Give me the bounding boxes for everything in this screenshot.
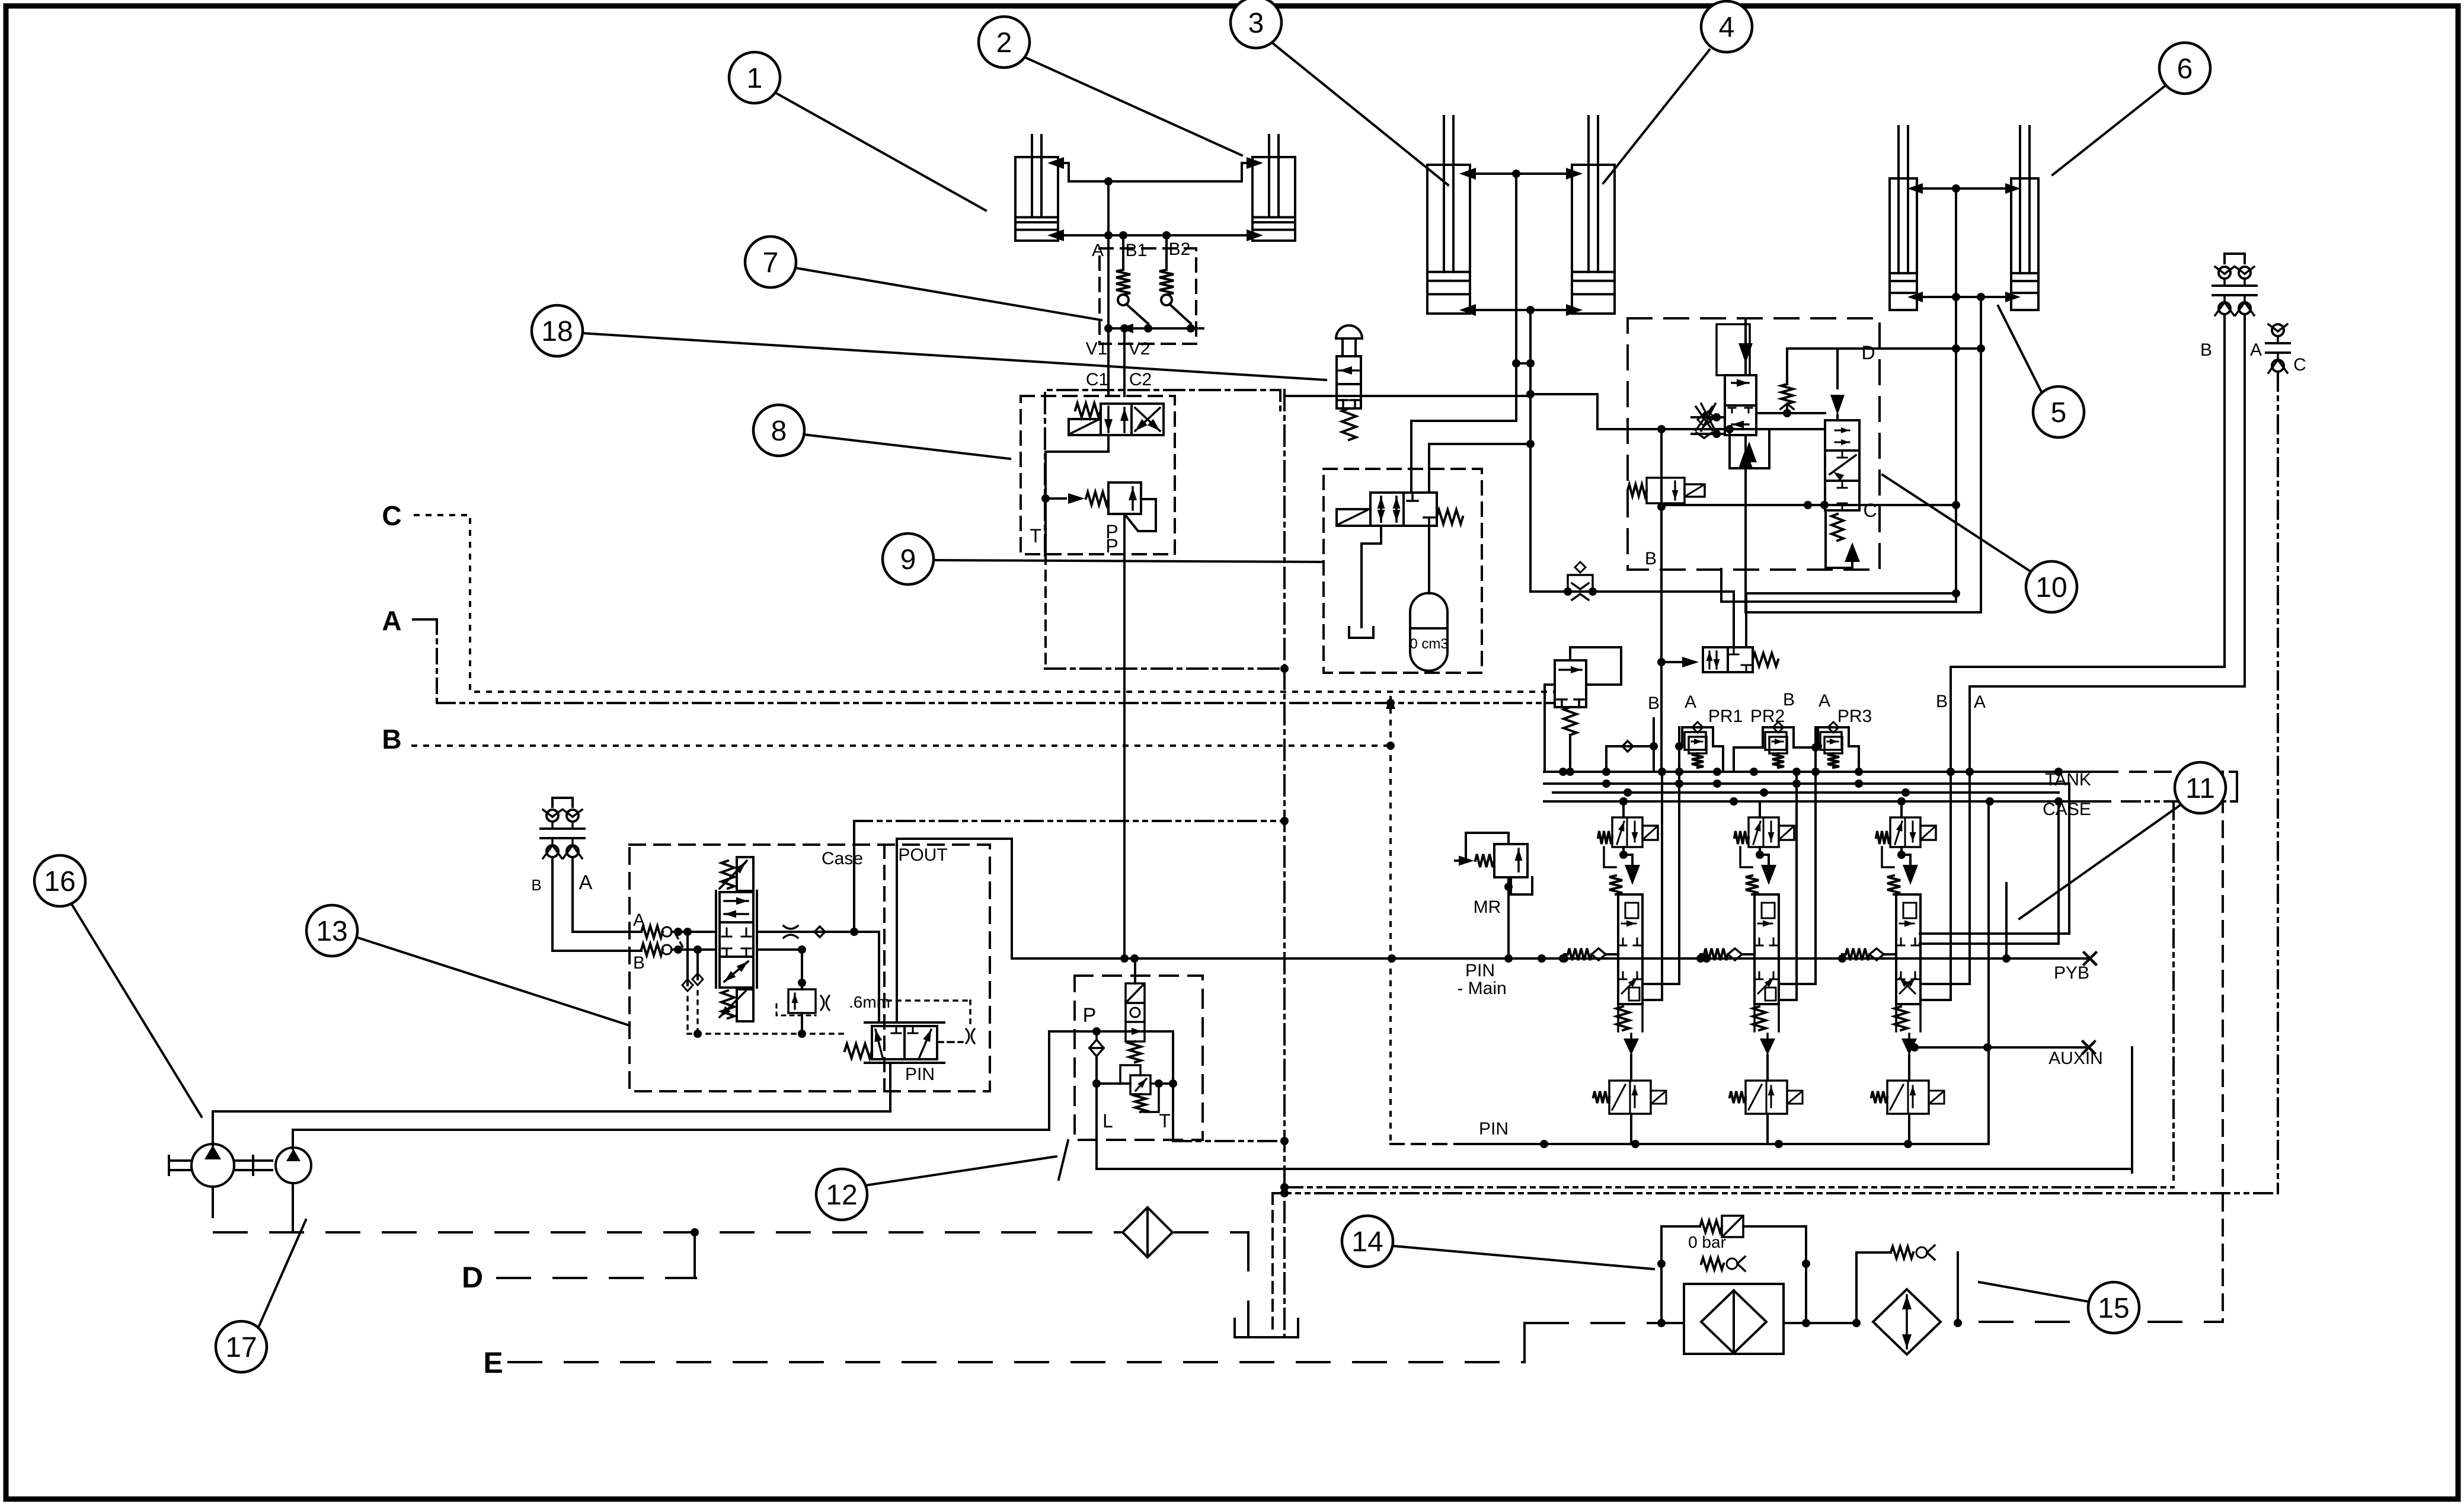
svg-text:C2: C2 <box>1129 370 1152 389</box>
node L label <box>1102 1110 1113 1132</box>
valve13 center cell ticks <box>722 928 751 957</box>
case net dashdotdot <box>854 817 1289 825</box>
svg-text:10: 10 <box>2035 572 2067 603</box>
callout circle 11 <box>2175 762 2226 813</box>
leader line 3 <box>1272 43 1448 185</box>
callout circle 7 <box>745 237 796 287</box>
svg-text:E: E <box>483 1346 503 1379</box>
check valve A-net <box>1730 429 1769 468</box>
svg-text:C: C <box>1863 500 1877 521</box>
svg-text:B: B <box>1783 690 1795 710</box>
svg-text:B: B <box>531 876 541 894</box>
manual valve arrow <box>1339 366 1359 375</box>
bank section 3 pilot+spool <box>1838 793 1944 1144</box>
pump shaft <box>169 1156 272 1175</box>
compensator spring-check <box>1041 492 1108 505</box>
valve13 bottom cap <box>720 989 753 1021</box>
node B label subassembly <box>1645 549 1657 568</box>
net E label <box>483 1346 503 1379</box>
solenoid 3-2 subassembly <box>1628 478 1705 503</box>
wire PIN line <box>1391 1140 1987 1148</box>
coupler bracket right <box>2225 254 2245 263</box>
node T <box>1030 499 1046 554</box>
wire pair1 bottom port <box>1047 229 1263 241</box>
manual valve knob <box>1336 325 1362 356</box>
svg-text:A: A <box>1819 691 1830 711</box>
wire pump1 outlet <box>213 1111 890 1145</box>
cylinder 1 (left of pair 1) <box>1015 135 1058 241</box>
T drain dashes <box>1044 554 1047 669</box>
check valve block 7 enclosure <box>1100 248 1196 344</box>
filter 14 right riser <box>1802 1226 1810 1327</box>
svg-text:C1: C1 <box>1086 370 1108 389</box>
wire shutoff entry <box>1661 657 1699 667</box>
node PIN label 13 <box>905 1065 935 1084</box>
net D dashed <box>497 1232 696 1278</box>
svg-text:PR3: PR3 <box>1837 707 1872 726</box>
valve block 8 enclosure <box>1021 396 1175 554</box>
net C label <box>382 500 401 531</box>
cylinder 4 (right of pair 2) <box>1572 116 1615 314</box>
quick coupler B left <box>541 810 564 858</box>
wire case dashdotdot right <box>2172 801 2175 1184</box>
filter 14 box <box>1684 1284 1784 1354</box>
bank section 1 pilot+spool <box>1560 797 1666 1144</box>
wire A3 drop <box>1920 772 1970 984</box>
dashdotdot drain line 2 <box>1273 1192 2278 1194</box>
wire A2 drop <box>1779 784 1816 984</box>
pressure reducer PR2 <box>1734 707 1820 784</box>
leader line 18 <box>582 333 1326 380</box>
wire accu feed 2 <box>1429 444 1530 493</box>
assembly10 right valve bottom <box>1826 510 1860 568</box>
svg-text:17: 17 <box>225 1332 257 1363</box>
node C label <box>1863 500 1877 521</box>
leader line 7 <box>795 268 1101 320</box>
valve13 top cap arrow <box>720 862 746 889</box>
assembly10 top poppet <box>1717 318 1753 375</box>
wire pair3 top port <box>1907 183 2021 194</box>
quick coupler A right <box>2233 267 2257 315</box>
callout circle 3 <box>1231 0 1281 48</box>
accu valve arrows <box>1378 497 1401 522</box>
dashdotdot drain line 1 <box>1280 1187 2174 1197</box>
node A pair1 <box>1092 181 1108 260</box>
svg-text:V2: V2 <box>1129 339 1150 359</box>
node B1 <box>1123 235 1147 270</box>
port spring B13 <box>641 944 672 956</box>
quick coupler C right <box>2266 324 2290 373</box>
wire pump suctions <box>213 1183 293 1232</box>
svg-text:5: 5 <box>2051 397 2067 429</box>
valve13 arrows bottom cell <box>724 961 748 982</box>
quick coupler B right <box>2213 267 2236 315</box>
check valve CV2 <box>1159 270 1191 324</box>
wire valve13 pilot left A <box>682 932 693 1034</box>
quick coupler A left <box>561 810 584 858</box>
filter bypass check <box>1661 1257 1806 1271</box>
filter 14 diamond <box>1701 1290 1766 1353</box>
callout circle 16 <box>34 855 85 906</box>
svg-text:18: 18 <box>541 316 573 347</box>
cooler 15 left riser <box>1852 1252 1861 1327</box>
leader line 6 <box>2053 85 2166 175</box>
accu valve T-cell <box>1407 493 1434 526</box>
wire B1 bank vertical <box>1657 429 1666 772</box>
node A label right <box>2250 340 2262 360</box>
callout circle 15 <box>2088 1282 2139 1333</box>
node A label bank3 <box>1974 692 1986 712</box>
node D line <box>1787 342 1981 384</box>
wire A1 drop <box>1642 772 1679 984</box>
svg-text:3: 3 <box>1248 8 1264 39</box>
throttle symbol A out <box>784 926 798 938</box>
svg-text:7: 7 <box>763 247 779 279</box>
wire A1 bank vertical <box>1679 708 1680 727</box>
valve8 spring <box>1075 403 1101 417</box>
wire C1 to compensator <box>1046 435 1108 499</box>
cylinder 2 (right of pair 1) <box>1252 135 1295 241</box>
valve13 arrows top cell <box>724 897 748 918</box>
wire AUX riser <box>1989 806 2006 1144</box>
node MR label <box>1474 897 1501 917</box>
svg-text:A: A <box>1685 692 1696 712</box>
wire pair2 top port <box>1459 168 1583 180</box>
node C label right <box>2293 355 2306 375</box>
pilot dotted bus 13 <box>688 1030 848 1038</box>
valve8 solenoid <box>1069 419 1101 435</box>
svg-text:V1: V1 <box>1086 339 1108 359</box>
assembly10 throttle X <box>1701 404 1715 431</box>
wire bypass to shutoff <box>1530 592 1734 647</box>
port spring A13 <box>641 926 672 938</box>
cylinder 3 (left of pair 2) <box>1427 116 1470 314</box>
wire A-net upper <box>1516 359 1825 433</box>
svg-text:6: 6 <box>2177 53 2193 85</box>
node CASE label <box>2043 800 2091 819</box>
node AUXIN label <box>2048 1049 2103 1068</box>
net C dotted <box>415 515 1555 692</box>
node PYB label <box>2054 963 2089 983</box>
wire accu tank branch <box>1362 526 1381 627</box>
wire C-net subassembly <box>1661 501 1956 509</box>
callout circle 14 <box>1342 1216 1393 1267</box>
PIN pilot throttle <box>887 1001 974 1043</box>
tank symbol item9 <box>1349 627 1373 638</box>
pilot supply 12 enclosure <box>1075 976 1203 1140</box>
leader line 4 <box>1603 50 1709 183</box>
tank symbol bottom <box>1235 1319 1298 1337</box>
node B label sec2 <box>1783 690 1795 710</box>
wire manual valve line <box>1286 395 1530 397</box>
manual valve T-cell <box>1338 400 1360 408</box>
coupler bracket left <box>552 798 573 807</box>
wire valve13 A out <box>757 928 879 1022</box>
filter diamond on suction <box>1123 1207 1172 1257</box>
svg-text:A: A <box>1974 692 1986 712</box>
node B label bank3 <box>1936 692 1948 711</box>
leader line 5 <box>1998 306 2043 394</box>
svg-text:T: T <box>1030 525 1041 547</box>
node A label 13 <box>633 910 645 930</box>
svg-text:8: 8 <box>771 416 787 447</box>
node Case label <box>822 849 863 868</box>
leader line 8 <box>804 434 1010 459</box>
pump 16 circle <box>191 1144 234 1187</box>
wire D hook <box>1239 1232 1248 1270</box>
net B label <box>382 724 401 755</box>
wire filter main line <box>1600 1322 1856 1324</box>
wire bank B3 vertical <box>1950 667 1952 772</box>
wire left feeds bank <box>1562 772 1564 954</box>
wire bus2 drop <box>1545 685 2069 934</box>
callout circle 8 <box>753 405 804 456</box>
manual valve 18 body <box>1337 356 1361 408</box>
svg-text:C: C <box>382 500 401 531</box>
wire tank dashed right <box>2222 772 2224 1322</box>
wire B1 drop <box>1642 772 1662 1000</box>
wire pump2 to P <box>293 1027 1173 1149</box>
svg-text:2: 2 <box>996 27 1012 59</box>
svg-text:A: A <box>382 605 401 636</box>
leader line 11 <box>2019 804 2181 919</box>
bus TANK line <box>1544 768 2237 801</box>
wire C dashdotdot <box>2277 373 2279 1193</box>
wire pair1 top port <box>1047 157 1263 186</box>
bus line 3 <box>1553 788 2059 797</box>
wire B2 drop <box>1779 772 1797 1000</box>
wire cooler line <box>1856 1322 1958 1324</box>
throttle check bypass <box>1564 562 1597 600</box>
svg-text:13: 13 <box>316 916 347 947</box>
cylinder 6 (right of pair 3) <box>2011 126 2038 310</box>
wire L-T branch <box>1092 1056 1130 1169</box>
valve8 right-cell cross arrows <box>1135 408 1160 431</box>
wire sec1 left vertical <box>1606 746 1607 772</box>
svg-text:T: T <box>1159 1110 1171 1132</box>
wire valve13 pilot left B <box>692 950 703 1038</box>
wire pair3 left drop <box>1878 188 1960 602</box>
pilot valve PIN 13 <box>845 1022 944 1063</box>
cylinder 5 (left of pair 3) <box>1890 126 1917 310</box>
node T label 12 <box>1159 1110 1171 1132</box>
accumulator <box>1410 526 1448 671</box>
valve block 13 enclosure <box>629 845 990 1091</box>
accumulator solenoid valve body <box>1370 493 1437 526</box>
assembly10 port lines left <box>1692 413 1725 438</box>
node Case vertical <box>853 821 855 932</box>
callout circle 5 <box>2033 386 2084 437</box>
net E dashed 2 <box>1535 1322 1660 1324</box>
svg-text:12: 12 <box>826 1180 857 1211</box>
svg-text:A: A <box>1092 241 1104 260</box>
wire AUX rect <box>2089 1047 2132 1172</box>
compensator valve 8 body <box>1108 483 1141 514</box>
solenoid pilot valve 8 body <box>1101 404 1164 435</box>
bus line 2 <box>1544 779 2069 788</box>
callout circle 6 <box>2159 43 2210 94</box>
svg-text:PYB: PYB <box>2054 963 2089 983</box>
svg-text:B1: B1 <box>1126 241 1148 260</box>
wire pair2 right drop <box>1526 310 1535 592</box>
node A label left <box>579 871 593 894</box>
svg-text:B: B <box>382 724 401 755</box>
svg-text:14: 14 <box>1351 1226 1383 1258</box>
node V1 <box>1086 248 1108 396</box>
net D label <box>462 1261 483 1294</box>
svg-text:PIN: PIN <box>905 1065 935 1084</box>
svg-text:C: C <box>2293 355 2306 375</box>
valve8 left-cell arrows <box>1104 407 1129 432</box>
wire drain line long <box>1097 1168 2132 1170</box>
svg-text:1: 1 <box>747 63 763 94</box>
wire pair2 left drop <box>1512 174 1520 421</box>
node PIN Main label <box>1457 961 1506 998</box>
solenoid valve 2-2 top <box>1703 647 1778 672</box>
valve13 rails <box>716 891 757 988</box>
wire B3 drop <box>1920 772 1951 1000</box>
wire T out 12 <box>1173 1031 1289 1145</box>
node V2 <box>1124 328 1150 396</box>
pressure reducer PR3 <box>1814 707 1872 772</box>
wire PIN-Main line <box>1012 953 2096 964</box>
svg-text:P: P <box>1105 535 1118 557</box>
cooler bypass check <box>1856 1245 1958 1260</box>
svg-text:PR1: PR1 <box>1708 707 1743 726</box>
node TANK label <box>2045 770 2091 790</box>
svg-text:A: A <box>579 871 593 894</box>
callout circle 17 <box>216 1321 267 1372</box>
tank suction dashed line <box>214 1228 1239 1236</box>
assembly10 right valve arrows <box>1830 427 1856 510</box>
leader line 16 <box>71 903 202 1117</box>
svg-text:A: A <box>2250 340 2262 360</box>
leader line 13 <box>356 937 629 1025</box>
leader line 15 <box>1979 1282 2089 1302</box>
svg-text:PR2: PR2 <box>1750 707 1785 726</box>
callout circle 13 <box>306 905 357 956</box>
wire valve10 bottom stub2 <box>1721 569 1878 602</box>
node B label left <box>531 876 541 894</box>
svg-text:L: L <box>1102 1110 1113 1132</box>
assembly10 right valve body <box>1825 420 1859 510</box>
svg-text:4: 4 <box>1719 12 1735 43</box>
accu valve spring <box>1437 510 1463 524</box>
manifold enclosure dash-dot <box>1045 390 1284 669</box>
gauge 0 bar <box>1661 1216 1806 1251</box>
node POUT label <box>898 845 947 865</box>
wire pair3 right drop <box>1746 297 1985 612</box>
relief valve MR <box>1455 833 1532 958</box>
leader line 17 <box>259 1220 306 1326</box>
valve13 body <box>720 892 753 988</box>
node B2 <box>1167 235 1190 270</box>
wire pair3 bottom port <box>1907 292 2021 302</box>
callout circle 9 <box>883 533 934 584</box>
check diamond bank inlet <box>1606 718 1658 772</box>
pump 17 flow triangle <box>286 1149 301 1161</box>
wire coupler A route <box>1970 315 2245 686</box>
leader line 9 <box>934 560 1324 562</box>
svg-text:11: 11 <box>2185 773 2215 804</box>
wire shutoff out <box>1746 589 1960 647</box>
leader line 10 <box>1883 475 2030 571</box>
wire PIN down <box>889 1063 891 1111</box>
manual valve spring <box>1342 408 1356 440</box>
wire valve10 bottom stub <box>1744 569 1747 612</box>
wire bus4 drop <box>1920 801 2059 944</box>
valve13 top cap <box>720 857 753 891</box>
svg-text:0 bar: 0 bar <box>1688 1233 1726 1251</box>
leader line 12 <box>865 1156 1056 1186</box>
svg-text:B: B <box>1648 694 1660 713</box>
svg-text:B: B <box>1645 549 1657 568</box>
wire pair2 bottom port <box>1459 304 1583 316</box>
svg-text:D: D <box>1861 342 1875 363</box>
assembly10 bottom poppet <box>1738 435 1753 569</box>
net A route <box>413 619 1555 703</box>
node B label sec1 <box>1648 694 1660 713</box>
cooler 15 right riser <box>1954 1252 1962 1327</box>
net A label <box>382 605 401 636</box>
svg-text:PIN: PIN <box>1479 1119 1509 1139</box>
svg-text:.6mm: .6mm <box>849 993 890 1011</box>
assembly10 mid spring check <box>1756 384 1825 417</box>
net E dashed <box>509 1361 1522 1363</box>
wire accu feed 1 <box>1411 421 1516 493</box>
callout circle 12 <box>816 1169 867 1220</box>
node C2 label <box>1129 370 1152 389</box>
svg-text:POUT: POUT <box>898 845 947 865</box>
callout circle 4 <box>1701 1 1752 52</box>
assembly10 left valve body <box>1725 375 1756 435</box>
node B label 13 <box>633 953 645 973</box>
node P label <box>1105 521 1118 557</box>
svg-text:15: 15 <box>2098 1293 2129 1324</box>
svg-text:PIN: PIN <box>1465 961 1495 980</box>
bank section 2 pilot+spool <box>1696 793 1803 1144</box>
svg-text:AUXIN: AUXIN <box>2048 1049 2103 1068</box>
check diamond A out <box>814 926 825 937</box>
svg-text:16: 16 <box>44 866 75 897</box>
svg-text:B: B <box>1936 692 1948 711</box>
pump 16 flow triangle <box>204 1145 221 1159</box>
cooler 15 diamond <box>1873 1289 1941 1354</box>
valve subassembly dashed box <box>1628 318 1880 570</box>
node P label 12 <box>1083 1004 1097 1027</box>
callout circle 18 <box>532 305 583 356</box>
wire valve13 B out <box>757 945 806 989</box>
leader line 14 <box>1394 1246 1654 1269</box>
filter 14 left riser <box>1657 1226 1666 1327</box>
check diamond P <box>1089 1031 1104 1056</box>
svg-text:- Main: - Main <box>1457 979 1506 998</box>
relief valve 12 <box>1120 1065 1177 1112</box>
net B dotted <box>413 744 1391 747</box>
wire A into valve13 <box>672 928 716 936</box>
check valve CV1 <box>1116 270 1148 324</box>
accumulator block 9 enclosure <box>1324 469 1482 673</box>
svg-text:CASE: CASE <box>2043 800 2091 819</box>
wire coupler B left route <box>552 859 641 951</box>
wire E hook <box>1522 1323 1535 1362</box>
svg-text:D: D <box>462 1261 483 1294</box>
assembly10 right valve top poppet <box>1830 349 1845 420</box>
svg-text:MR: MR <box>1474 897 1501 917</box>
wire coupler B route <box>1951 315 2225 667</box>
wire AUXIN line <box>1910 1041 2095 1053</box>
wire drain to tank <box>1248 1193 1273 1335</box>
